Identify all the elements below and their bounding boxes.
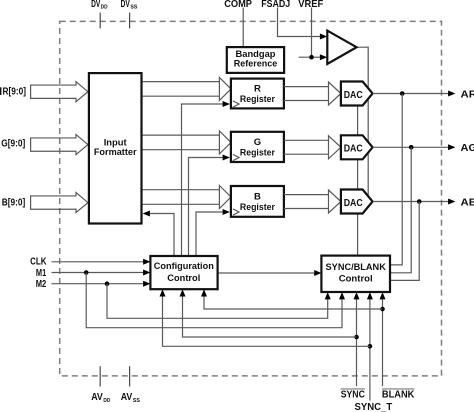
svg-text:DV: DV <box>91 0 100 10</box>
bus R register to DAC1 <box>284 86 329 88</box>
op-amp buffer U1 <box>327 31 356 64</box>
bus B register to DAC3 <box>284 194 329 196</box>
svg-text:Control: Control <box>167 273 200 284</box>
arrow pin1 up into sync/blank <box>325 292 331 299</box>
wire M1 feedback to sync/blank pin2 <box>86 273 342 328</box>
svg-text:DAC: DAC <box>344 143 363 155</box>
block Bandgap Reference <box>227 47 284 73</box>
wire buffer output to reference rail <box>357 47 369 201</box>
input bus arrow B[9:0] <box>31 193 88 213</box>
block Configuration Control <box>150 256 217 289</box>
DAC 1 (R) <box>341 82 373 106</box>
svg-text:DV: DV <box>121 0 130 10</box>
bus arrowhead into DAC2 <box>329 136 341 159</box>
wire config to R register clock <box>182 104 223 256</box>
wire CLK <box>52 261 144 263</box>
wire VREF down <box>311 8 313 58</box>
arrow AB output <box>448 199 455 205</box>
arrow pin2 up into sync/blank <box>339 292 345 299</box>
junction dot VREF <box>309 55 314 60</box>
pin tick AVdd <box>99 366 101 386</box>
svg-text:VREF: VREF <box>298 0 323 10</box>
clock chevron R register <box>233 101 239 107</box>
clock chevron B register <box>233 209 239 215</box>
arrow SYNC_T up into sync/blank <box>367 292 373 299</box>
DAC 2 (G) <box>341 135 373 159</box>
svg-text:M1: M1 <box>36 268 47 279</box>
junction dot BLANK <box>380 307 385 312</box>
chip boundary (dashed) <box>60 21 442 376</box>
svg-text:Formatter: Formatter <box>94 147 137 158</box>
svg-text:Register: Register <box>240 94 275 105</box>
bus arrowhead into G register <box>219 131 231 154</box>
svg-text:Reference: Reference <box>234 59 278 70</box>
arrow AR output <box>448 91 455 97</box>
junction dot AR <box>400 91 405 96</box>
arrow into sync/blank control <box>314 270 321 276</box>
arrow FSADJ into buffer <box>320 34 327 40</box>
svg-text:AB: AB <box>461 196 474 208</box>
wire AB feedback to sync/blank <box>391 202 420 281</box>
arrow M2 into config <box>143 281 150 287</box>
block R Register <box>231 79 284 109</box>
svg-text:AV: AV <box>121 392 133 403</box>
wire BLANK pin <box>382 299 384 386</box>
svg-text:SYNC/BLANK: SYNC/BLANK <box>326 262 386 273</box>
wire COMP to bandgap <box>242 8 244 47</box>
svg-text:B[9:0]: B[9:0] <box>2 197 26 208</box>
svg-text:DD: DD <box>101 5 108 11</box>
bus arrowhead into DAC3 <box>329 190 341 213</box>
wire SYNC tap to config <box>183 296 357 337</box>
svg-text:G: G <box>254 137 261 148</box>
clock chevron G register <box>233 154 239 160</box>
arrow into config from SYNC_T <box>160 289 166 296</box>
wire SYNC_T pin <box>369 299 371 401</box>
wire config to B register clock <box>196 212 223 256</box>
junction dot SYNC_T <box>368 344 373 349</box>
wire DAC3 output AB <box>373 201 449 203</box>
junction dot AB <box>417 199 422 204</box>
pin tick DVss <box>129 13 131 29</box>
svg-text:SS: SS <box>133 398 140 404</box>
svg-text:AV: AV <box>91 392 103 403</box>
bus G register to DAC2 <box>284 139 329 141</box>
svg-text:BLANK: BLANK <box>382 390 415 401</box>
svg-text:COMP: COMP <box>224 0 252 10</box>
junction dot M1 <box>84 270 89 275</box>
svg-text:R[9:0]: R[9:0] <box>3 87 27 98</box>
wire BLANK tap to config <box>204 296 383 309</box>
svg-text:FSADJ: FSADJ <box>261 0 290 10</box>
arrow SYNC up into sync/blank <box>354 292 360 299</box>
block SYNC/BLANK Control <box>321 256 390 292</box>
arrow into config from SYNC <box>180 289 186 296</box>
bus formatter to G register <box>143 134 220 136</box>
svg-text:SYNC: SYNC <box>341 390 365 401</box>
arrow CLK into config <box>143 259 150 265</box>
bus formatter to R register <box>143 81 220 83</box>
wire FSADJ to buffer + input <box>278 8 321 37</box>
svg-text:B: B <box>254 191 261 202</box>
svg-text:CLK: CLK <box>30 256 47 267</box>
input bus arrow G[9:0] <box>31 135 88 155</box>
bus arrowhead into R register <box>219 77 231 100</box>
DAC 3 (B) <box>341 190 373 214</box>
block G Register <box>231 132 284 162</box>
bus arrowhead into B register <box>219 186 231 209</box>
wire VREF stub to buffer - input <box>299 56 321 58</box>
arrow M1 into config <box>143 270 150 276</box>
svg-text:Register: Register <box>240 147 275 158</box>
arrow B register clock <box>223 209 230 215</box>
svg-text:SYNC_T: SYNC_T <box>355 402 393 412</box>
arrow G register clock <box>223 155 230 161</box>
arrow AG output <box>448 144 455 150</box>
svg-text:M2: M2 <box>36 279 47 290</box>
svg-text:DD: DD <box>103 398 110 404</box>
svg-text:Register: Register <box>240 202 275 213</box>
junction dot SYNC <box>354 335 359 340</box>
wire M1 <box>52 272 144 274</box>
wire config to sync/blank control <box>219 272 315 274</box>
input bus arrow R[9:0] <box>31 82 88 102</box>
wire config to G register clock <box>189 158 223 257</box>
block Input Formatter <box>89 73 142 223</box>
bus arrowhead into DAC1 <box>329 82 341 105</box>
svg-text:AR: AR <box>461 88 474 100</box>
svg-text:Configuration: Configuration <box>154 261 214 272</box>
pin tick AVss <box>129 366 131 386</box>
svg-text:AG: AG <box>461 142 474 154</box>
arrow into config from BLANK <box>201 289 207 296</box>
svg-text:DAC: DAC <box>344 197 363 209</box>
wire AG feedback to sync/blank <box>391 147 412 272</box>
wire DAC2 output AG <box>373 146 449 148</box>
svg-text:SS: SS <box>130 5 137 11</box>
arrow VREF into buffer <box>320 54 327 60</box>
wire M2 feedback to sync/blank pin1 <box>107 284 328 319</box>
arrow into input formatter <box>143 211 150 217</box>
svg-text:G[9:0]: G[9:0] <box>1 139 25 150</box>
junction dot AG <box>409 145 414 150</box>
wire config to input formatter <box>150 214 174 257</box>
pin tick DVdd <box>99 13 101 29</box>
svg-text:Control: Control <box>339 273 373 284</box>
block B Register <box>231 186 284 217</box>
svg-text:R: R <box>254 83 261 94</box>
arrow R register clock <box>223 101 230 107</box>
wire reference rail DAC1 to SYNC/BLANK <box>357 94 359 256</box>
arrow BLANK up into sync/blank <box>380 292 386 299</box>
label R[9:0] <box>0 87 1 95</box>
wire SYNC pin <box>356 299 358 386</box>
junction dot M2 <box>105 281 110 286</box>
wire AR feedback to sync/blank <box>391 94 403 265</box>
svg-text:DAC: DAC <box>344 89 363 101</box>
bus formatter to B register <box>143 189 220 191</box>
wire SYNC_T tap to config <box>163 296 370 346</box>
wire DAC1 output AR <box>373 93 449 95</box>
wire M2 <box>52 283 144 285</box>
